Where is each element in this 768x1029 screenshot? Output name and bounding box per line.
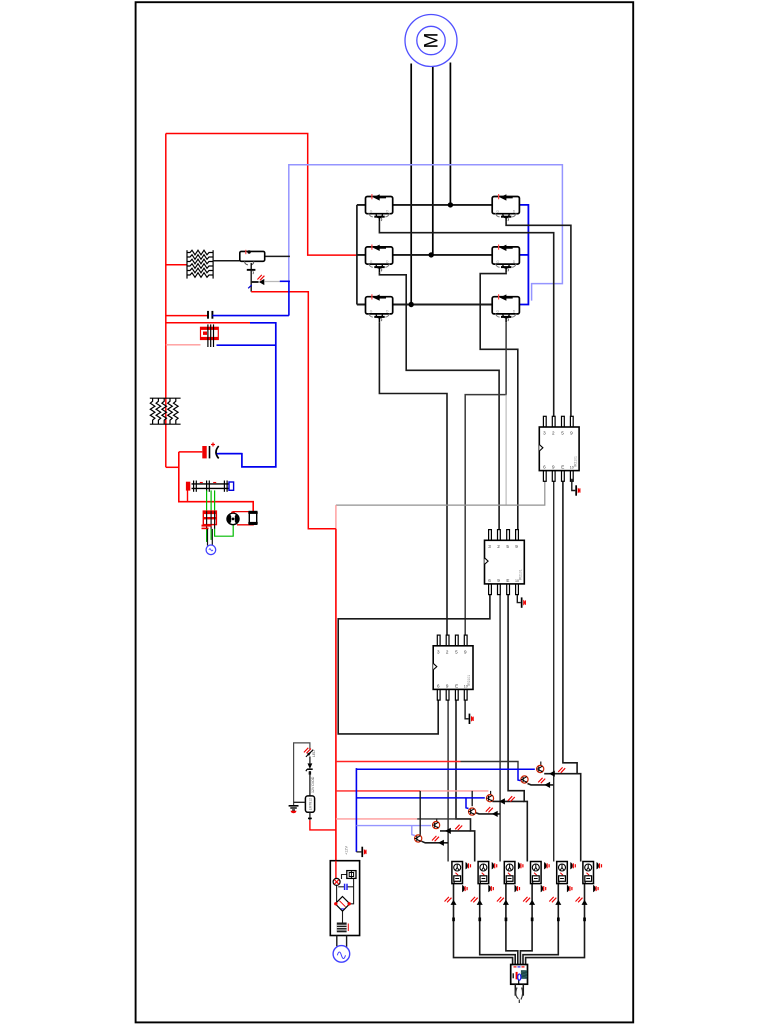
wire opto1 upper output	[544, 773, 577, 775]
transistor Q6	[492, 294, 519, 322]
svg-text:LED: LED	[312, 750, 316, 757]
wire green rect leads	[207, 490, 234, 542]
source G2 AC mains	[333, 946, 350, 963]
transistor opto2 upper	[486, 795, 493, 802]
ground GND1	[289, 806, 299, 813]
wire PS1 internal links	[337, 875, 356, 923]
wire blue pair2 feed	[356, 797, 484, 799]
diode D8	[259, 279, 264, 285]
wire Q8 collector to blue node	[265, 255, 290, 257]
wire Q1 source to U1 pin2	[379, 222, 553, 416]
capacitor C2 electrolytic	[202, 443, 218, 459]
wire Q6 source to U3 pin4	[465, 322, 506, 635]
diode opto3 upper	[445, 828, 451, 834]
motor M1 outer circle	[405, 15, 457, 67]
wire blue rail from T1	[219, 323, 276, 467]
red slashes D8	[257, 275, 264, 280]
wire unit2 bottom chain	[480, 884, 516, 965]
wire PS1 bottom leads	[336, 936, 338, 947]
wire blue COM rail	[355, 768, 357, 852]
wire black leads to source G1	[207, 529, 209, 546]
wire gray stub below Q6	[505, 395, 507, 505]
transistor Q1	[366, 194, 393, 222]
wire motor phase C	[410, 64, 412, 305]
diode unit3	[497, 897, 509, 921]
node phase B junction	[429, 252, 434, 257]
zener D10	[306, 763, 313, 774]
wire pink pair3 feed	[336, 818, 417, 820]
wire flag link	[356, 851, 361, 853]
wire unit6 bottom chain	[526, 884, 585, 965]
wire unit3 bottom chain	[506, 884, 518, 965]
op-amp U3 gate driver	[433, 635, 473, 700]
wire red bank drop	[187, 490, 189, 501]
diode unit2	[471, 897, 483, 921]
wire red C2 lead	[179, 451, 203, 453]
diode unit5	[549, 897, 561, 921]
wire U2 pin3 to unit4 feed	[508, 595, 527, 862]
wire U3 pin2 down	[447, 701, 449, 862]
source G1 AC circle	[206, 545, 216, 555]
ground flag U3	[469, 714, 474, 724]
ground flag U1	[575, 485, 580, 495]
diode opto2 lower	[492, 811, 498, 817]
capacitor C1	[208, 311, 212, 319]
wire red2 drop	[490, 791, 492, 795]
driver unit4	[531, 862, 550, 893]
diode opto1 upper	[549, 771, 555, 777]
wire light red riser	[335, 505, 337, 529]
wire U2 pin4 to flag	[517, 595, 521, 603]
power supply box PS1	[330, 861, 359, 936]
wire R1 to Q8 gate	[213, 260, 240, 262]
wire blue pair1 feed	[356, 768, 534, 770]
wire unit5 bottom chain	[523, 884, 558, 965]
wire U2 pin2 down	[499, 595, 501, 862]
bridge rectifier B2	[334, 897, 351, 912]
svg-text:M: M	[422, 33, 443, 49]
wire red feed to resistor bank R1	[166, 264, 187, 266]
wire opto3 upper output	[440, 830, 471, 832]
driver unit1	[452, 862, 471, 893]
node phase C junction	[409, 302, 414, 307]
meter M2	[226, 512, 239, 525]
op-amp U1 gate driver	[539, 416, 579, 481]
wire CN1 leads	[514, 984, 516, 996]
driver unit6	[583, 862, 602, 893]
wire red pair1 feed	[336, 761, 461, 763]
transistor Q3	[366, 245, 393, 273]
wire blue from C1	[212, 315, 289, 317]
wire Q8 source down	[250, 271, 252, 292]
transistor Q5	[366, 294, 393, 322]
transistor opto1 lower	[521, 776, 528, 783]
regulator VR1	[305, 796, 314, 812]
connector CN1	[511, 965, 528, 985]
wire gate bus left	[356, 205, 358, 305]
wire U2 pin1 link left	[338, 595, 490, 734]
power flag F1	[361, 847, 366, 857]
transistor Q4	[492, 245, 519, 273]
wire blue HV bus	[519, 205, 529, 305]
node phase A junction	[448, 202, 453, 207]
wire red C2 branch	[179, 452, 253, 512]
wire motor phase B	[432, 67, 434, 255]
wire red V+ box top	[166, 134, 357, 256]
bridge rectifier B1 red block	[202, 511, 217, 529]
wire red inside PS1	[335, 861, 337, 879]
wire Q8 emitter branch	[251, 281, 258, 283]
LED D9	[304, 748, 316, 757]
wire bridge row3	[357, 304, 492, 306]
transistor Q2	[492, 194, 519, 222]
wire +12V rail vertical	[335, 529, 337, 861]
wire Q3 source to U2 pin2	[379, 272, 499, 529]
antenna hook glyph	[516, 988, 523, 1004]
transistor opto2 lower	[469, 808, 476, 815]
wire bridge row2	[357, 254, 492, 256]
wire pink T1 left lead	[166, 344, 201, 346]
ground flag U2	[521, 597, 526, 607]
resistor bank R2	[150, 398, 181, 424]
wire blue row2 stub	[519, 254, 529, 256]
transformer T1	[201, 324, 219, 347]
wire opto2 upper output	[492, 800, 524, 802]
wire regulator left lead	[294, 801, 306, 803]
crystal X1	[248, 512, 257, 525]
wire red left bus	[165, 134, 167, 468]
lamp L1	[333, 878, 340, 885]
wire lavender pair3 feed	[356, 825, 431, 827]
wire D8 to blue node (gray)	[264, 281, 280, 283]
diode opto1 lower	[544, 782, 550, 788]
wire zener to regulator	[309, 771, 311, 796]
wire blue vertical from lavender to C1	[288, 281, 290, 316]
wire unit4 bottom chain	[520, 884, 532, 965]
wire red pair2 feed	[336, 790, 420, 792]
resistor bank R1	[187, 250, 213, 278]
diode opto2 upper	[499, 798, 505, 804]
wire red rail to T1 primary	[166, 322, 250, 324]
driver unit3	[504, 862, 523, 893]
op-amp U2 gate driver	[485, 530, 525, 595]
wire stray drop pair2	[419, 791, 421, 835]
switch SW1	[347, 871, 356, 879]
wire red Q8 source to regulator drop	[251, 292, 336, 529]
wire opto2 lower output	[475, 813, 500, 814]
blue tick on Q8 source	[248, 285, 252, 288]
wire U1 pin1 to +12V rail (gray)	[336, 479, 545, 505]
wire regulator loop top	[294, 743, 310, 805]
wire red1 drop	[540, 762, 542, 766]
border frame	[136, 2, 634, 1022]
transistor opto3 lower	[415, 835, 422, 842]
diode unit4	[523, 897, 535, 921]
motor M1 inner circle	[417, 26, 445, 54]
wire Q5 source to U3 pin2	[379, 322, 447, 635]
wire bridge row1	[357, 204, 492, 206]
wire blue C2 lead	[217, 453, 242, 455]
wire U1 pin2 down	[553, 479, 555, 862]
transistor opto3 upper	[433, 822, 440, 829]
wire U3 pin3 to unit2 feed	[456, 701, 475, 862]
wire opto1 lower output	[528, 784, 554, 785]
wire U1 pin4 to flag	[572, 479, 576, 491]
wire U1 pin3 to unit6 feed	[563, 479, 581, 862]
transformer T2	[337, 923, 349, 933]
wire regulator output	[309, 812, 311, 820]
transistor opto1 upper	[537, 765, 544, 772]
wire LED to zener	[309, 757, 311, 764]
wire opto3 lower output	[421, 841, 448, 843]
driver unit2	[478, 862, 497, 893]
wire red regulator to +12V rail	[310, 820, 336, 830]
diode unit6	[576, 897, 588, 921]
capacitor bank C3	[186, 481, 234, 492]
wire blue link to lavender bus	[280, 280, 290, 282]
wire red bus elbow to C2	[166, 466, 179, 468]
capacitor C4	[345, 884, 347, 890]
wire U3 pin4 to flag	[465, 701, 469, 719]
wire red loop around M2	[233, 512, 253, 514]
driver unit5	[557, 862, 576, 893]
diode opto3 lower	[438, 840, 444, 846]
svg-text:12V DIOD: 12V DIOD	[311, 776, 315, 793]
wire unit1 bottom chain	[454, 884, 513, 965]
wire blue T1 right lead	[217, 344, 276, 346]
wire lavender net top	[289, 165, 563, 301]
wire red to C1	[166, 315, 208, 317]
svg-text:LM7812: LM7812	[309, 798, 313, 810]
wire Q4 source to U2 pin4	[480, 272, 518, 529]
wire red3 drop	[436, 819, 438, 822]
wire motor phase A	[449, 63, 451, 205]
transistor Q8	[240, 250, 265, 274]
wire Q2 source to U1 pin4	[506, 222, 571, 416]
svg-text:+12V: +12V	[345, 846, 349, 855]
diode unit1	[445, 897, 457, 921]
